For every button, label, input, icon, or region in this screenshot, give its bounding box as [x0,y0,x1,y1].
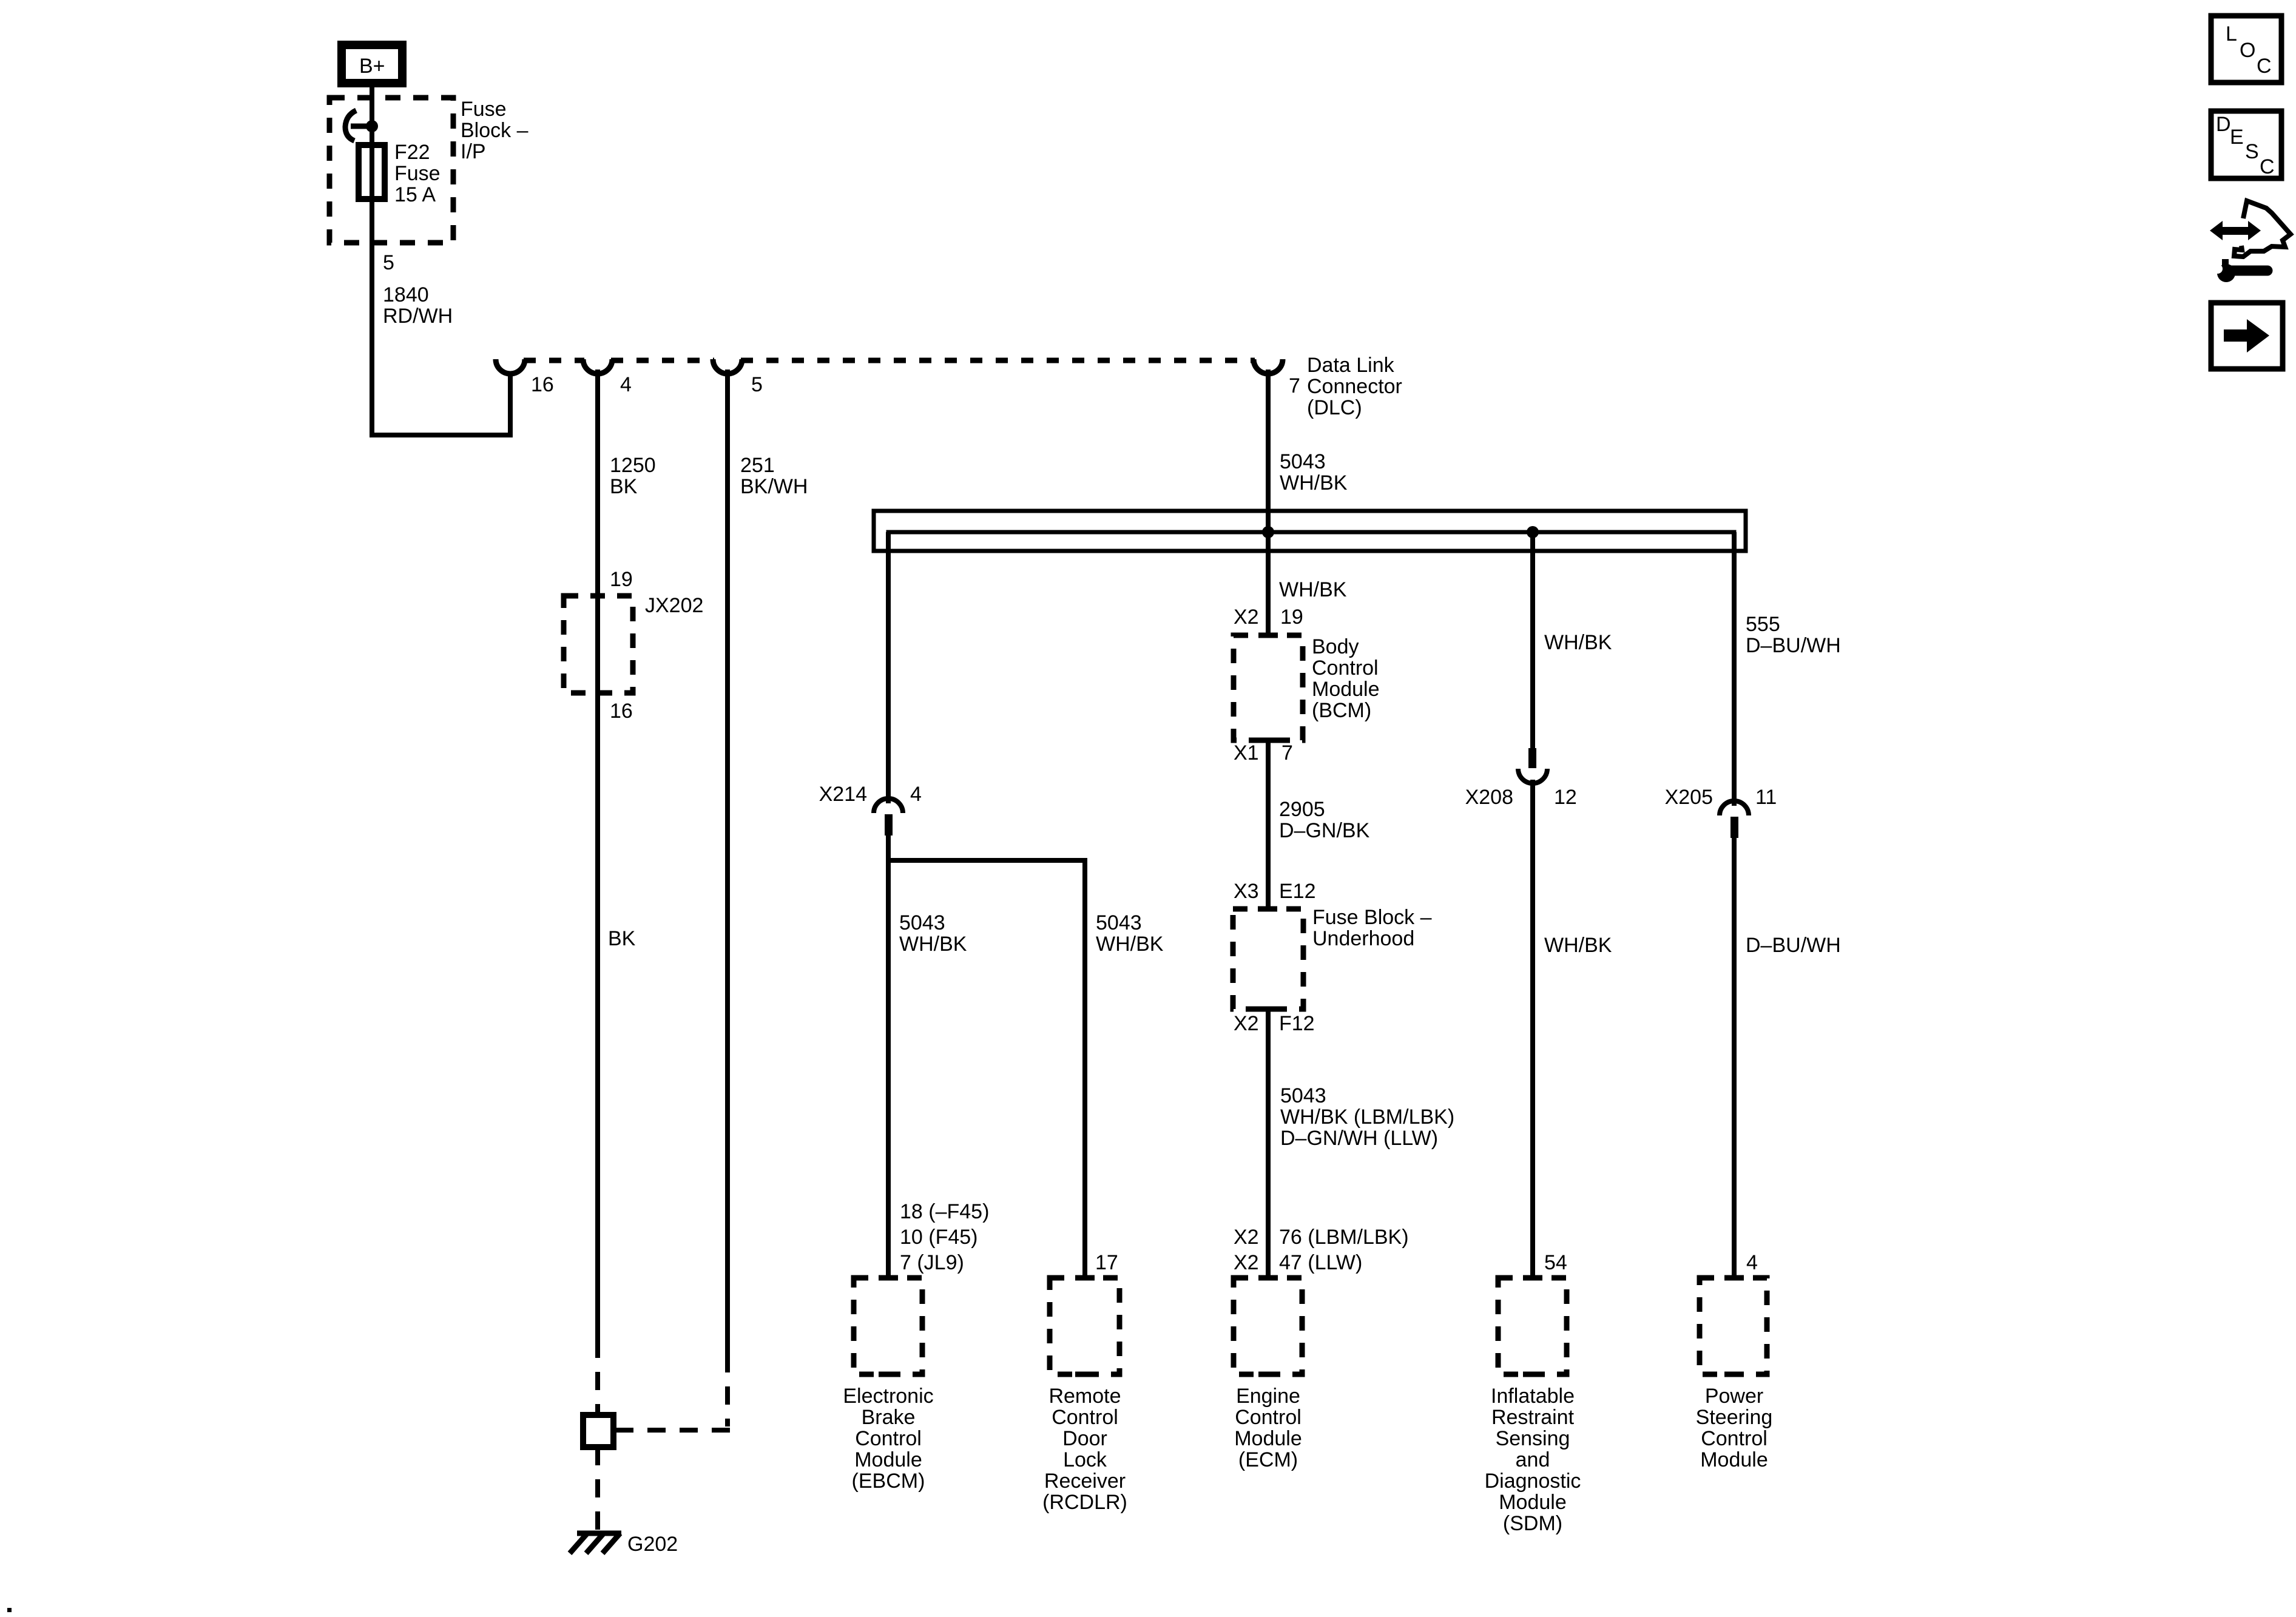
svg-text:Control: Control [855,1427,922,1450]
Data Link Connector (DLC) label [1307,354,1402,419]
svg-text:Diagnostic: Diagnostic [1485,1470,1581,1493]
wire 1250 BK from DLC pin 4 [595,370,600,1340]
Inflatable Restraint Sensing and Diagnostic Module (SDM) label [1485,1385,1581,1535]
svg-text:X1: X1 [1234,741,1259,765]
wire B+ to fuse block [370,87,374,147]
DLC connector cup pin 16 [496,359,525,374]
fuse block underhood dashed box [1233,909,1303,1009]
svg-text:5043: 5043 [899,911,945,934]
svg-text:54: 54 [1544,1251,1567,1274]
Body Control Module (BCM) label [1312,635,1380,722]
dashed wire 251 BK/WH down [725,1354,730,1426]
svg-text:WH/BK: WH/BK [1544,631,1612,654]
svg-text:BK/WH: BK/WH [740,475,808,498]
pin labels at EBCM [900,1200,989,1274]
underhood box bottom center dash [1258,1007,1277,1012]
svg-text:X208: X208 [1465,786,1513,809]
node: bus junction dot at SDM wire [1527,526,1539,538]
svg-text:G202: G202 [627,1533,678,1556]
svg-text:X3: X3 [1234,880,1259,903]
svg-text:Module: Module [854,1448,922,1471]
svg-text:19: 19 [1280,606,1303,629]
svg-text:5: 5 [383,251,394,274]
svg-text:1250: 1250 [610,454,656,477]
svg-text:16: 16 [610,700,633,723]
svg-text:F22: F22 [394,141,430,164]
wire 1840 RD/WH label [383,283,453,328]
svg-text:X2: X2 [1234,1012,1259,1035]
svg-text:5: 5 [751,373,763,396]
svg-text:2905: 2905 [1279,798,1325,821]
svg-text:Inflatable: Inflatable [1491,1385,1575,1408]
pin row X2 19 at BCM [1234,606,1303,629]
svg-text:(SDM): (SDM) [1503,1512,1562,1535]
svg-text:(DLC): (DLC) [1307,396,1362,419]
pin row X1 7 below BCM [1234,741,1293,765]
fuse F22 15 A [359,145,385,199]
svg-text:Module: Module [1234,1427,1302,1450]
diagnostic tool icon: wrench [2207,259,2267,282]
svg-text:WH/BK: WH/BK [1096,933,1164,956]
svg-text:7: 7 [1289,374,1300,397]
svg-text:C: C [2260,155,2275,178]
wire branch to RCDLR [888,860,1085,1280]
svg-text:D–BU/WH: D–BU/WH [1746,634,1841,657]
wire 5043 underhood to ECM [1266,1009,1271,1280]
svg-text:X2: X2 [1234,1251,1259,1274]
svg-text:Restraint: Restraint [1491,1406,1575,1429]
BCM box bottom center dash [1258,738,1278,743]
svg-text:WH/BK: WH/BK [899,933,967,956]
wire 5043 WH/BK label (RCDLR) [1096,911,1164,956]
svg-text:10 (F45): 10 (F45) [900,1226,978,1249]
wire 5043 WH/BK label (DLC drop) [1280,450,1348,495]
svg-text:76 (LBM/LBK): 76 (LBM/LBK) [1279,1226,1409,1249]
svg-text:(RCDLR): (RCDLR) [1042,1491,1127,1514]
wire WH/BK bus to EBCM branch [886,532,891,803]
pin row X2 F12 below underhood fuse block [1234,1012,1315,1035]
dashed wire BK to splice square [595,1340,600,1415]
svg-text:15 A: 15 A [394,183,436,206]
dashed wire splice to ground [595,1447,600,1530]
svg-text:555: 555 [1746,613,1780,636]
ECM module dashed box [1234,1278,1302,1374]
ground G202 symbol [570,1533,621,1553]
pin row X3 E12 at underhood fuse block [1234,880,1316,903]
svg-text:(ECM): (ECM) [1238,1448,1298,1471]
svg-text:Steering: Steering [1696,1406,1773,1429]
underhood box top center dash [1258,906,1277,912]
svg-text:Fuse: Fuse [461,98,507,121]
svg-text:WH/BK: WH/BK [1279,578,1347,601]
svg-text:Module: Module [1312,678,1380,701]
svg-text:19: 19 [610,568,633,591]
wire WH/BK bus to SDM [1530,532,1535,750]
wire 251 BK/WH label [740,454,808,498]
dashed wire 251 BK/WH horizontal to splice [623,1428,730,1433]
svg-text:Fuse: Fuse [394,162,441,185]
fuse block I/P dashed box [329,98,453,243]
svg-text:4: 4 [620,373,632,396]
DESC icon box [2211,111,2281,178]
body control module BCM dashed box [1234,635,1303,740]
wire 5043 WH/BK from DLC pin 7 to bus [1266,370,1271,532]
svg-text:Receiver: Receiver [1044,1470,1126,1493]
wire up to DLC pin 16 [508,371,513,435]
wire fuse down to corner [370,199,374,437]
svg-text:D–GN/WH (LLW): D–GN/WH (LLW) [1280,1127,1438,1150]
svg-text:JX202: JX202 [645,594,703,617]
page artifact dot [7,1608,12,1612]
svg-text:O: O [2240,39,2255,62]
svg-text:7 (JL9): 7 (JL9) [900,1251,964,1274]
fuse F22 label [394,141,441,206]
in-line connector X208 pin 12 [1518,748,1547,783]
DLC connector cup pin 7 [1254,359,1283,374]
svg-text:Control: Control [1701,1427,1768,1450]
Engine Control Module (ECM) label [1234,1385,1302,1471]
svg-text:Sensing: Sensing [1496,1427,1570,1450]
PS control module dashed box [1700,1278,1767,1374]
svg-text:7: 7 [1281,741,1293,765]
svg-text:Connector: Connector [1307,375,1402,398]
junction block JX202 dashed box [564,596,633,693]
svg-text:Underhood: Underhood [1312,927,1414,950]
next-page arrow icon box [2211,303,2283,369]
wire WH/BK bus to BCM [1266,532,1271,638]
svg-text:Control: Control [1235,1406,1302,1429]
svg-text:BK: BK [610,475,638,498]
node: fuse block terminal junction dot [366,120,378,132]
svg-text:Electronic: Electronic [843,1385,933,1408]
wire 1250 BK label [610,454,656,498]
svg-text:251: 251 [740,454,775,477]
wire 5043 WH/BK label (EBCM) [899,911,967,956]
svg-text:Control: Control [1052,1406,1118,1429]
svg-text:Fuse Block –: Fuse Block – [1312,906,1432,929]
svg-text:1840: 1840 [383,283,429,306]
svg-text:Data Link: Data Link [1307,354,1395,377]
svg-text:C: C [2257,55,2272,78]
wire 555 D-BU/WH bus to X205 [1732,532,1737,806]
svg-text:D–BU/WH: D–BU/WH [1746,934,1841,957]
svg-text:(BCM): (BCM) [1312,699,1371,722]
svg-text:Module: Module [1499,1491,1567,1514]
svg-text:47 (LLW): 47 (LLW) [1279,1251,1362,1274]
node: bus junction dot at ECM wire [1262,526,1274,538]
wire X214 down to EBCM [886,836,891,1280]
svg-text:X2: X2 [1234,606,1259,629]
diagnostic tool icon: double arrow [2210,221,2261,240]
LOC icon box [2211,16,2281,83]
Remote Control Door Lock Receiver (RCDLR) label [1042,1385,1127,1514]
wire 2905 D-GN/BK BCM to underhood fuse block [1266,740,1271,911]
svg-text:D: D [2216,113,2231,136]
svg-text:L: L [2226,22,2237,46]
svg-text:RD/WH: RD/WH [383,305,453,328]
wire X205 down to PS module [1732,838,1737,1280]
svg-text:5043: 5043 [1280,450,1326,473]
svg-text:B+: B+ [359,55,385,78]
svg-text:F12: F12 [1279,1012,1315,1035]
svg-text:Power: Power [1705,1385,1763,1408]
svg-text:Door: Door [1062,1427,1107,1450]
svg-text:X2: X2 [1234,1226,1259,1249]
svg-text:D–GN/BK: D–GN/BK [1279,819,1370,842]
splice square junction [583,1415,624,1447]
svg-text:Engine: Engine [1236,1385,1300,1408]
svg-text:S: S [2245,140,2259,163]
svg-text:X205: X205 [1665,786,1713,809]
B+ power feed symbol [342,45,402,83]
fuse block I/P label [461,98,528,163]
svg-text:17: 17 [1095,1251,1118,1274]
svg-text:Block –: Block – [461,119,528,142]
svg-text:11: 11 [1755,786,1777,809]
svg-text:WH/BK: WH/BK [1280,471,1348,495]
serial data bus inner line [888,532,1734,553]
svg-text:WH/BK: WH/BK [1544,934,1612,957]
svg-text:Module: Module [1700,1448,1768,1471]
svg-text:I/P: I/P [461,140,486,163]
svg-text:12: 12 [1554,786,1577,809]
DLC internal dashed line [524,358,1255,363]
svg-text:and: and [1516,1448,1550,1471]
svg-text:Control: Control [1312,657,1379,680]
wire 2905 D-GN/BK label [1279,798,1370,842]
in-line connector X214 pin 4 [874,798,903,836]
wire 555 D-BU/WH label [1746,613,1841,657]
pin row X2 76 / X2 47 at ECM [1234,1226,1409,1274]
svg-text:Remote: Remote [1048,1385,1121,1408]
SDM module dashed box [1498,1278,1567,1374]
svg-text:WH/BK (LBM/LBK): WH/BK (LBM/LBK) [1280,1106,1454,1129]
fuse block terminal hook symbol [345,110,372,141]
Electronic Brake Control Module (EBCM) label [843,1385,933,1493]
RCDLR module dashed box [1050,1278,1119,1374]
svg-text:18 (–F45): 18 (–F45) [900,1200,989,1223]
Fuse Block Underhood label [1312,906,1432,950]
svg-text:Lock: Lock [1063,1448,1107,1471]
svg-text:BK: BK [608,927,636,950]
diagnostic tool icon: connector outline [2234,201,2291,257]
svg-text:(EBCM): (EBCM) [852,1470,925,1493]
DLC connector cup pin 5 [713,359,742,374]
Power Steering Control Module label [1696,1385,1773,1471]
svg-text:4: 4 [1746,1251,1758,1274]
wire 251 BK/WH from DLC pin 5 [725,370,730,1354]
svg-text:5043: 5043 [1096,911,1142,934]
serial data bus outer rectangle [874,511,1746,551]
svg-text:E12: E12 [1279,880,1316,903]
in-line connector X205 pin 11 [1720,801,1749,838]
svg-text:4: 4 [910,783,922,806]
wire 5043 WH/BK (LBM/LBK) D-GN/WH (LLW) label [1280,1084,1454,1150]
svg-text:X214: X214 [819,783,867,806]
svg-text:5043: 5043 [1280,1084,1326,1107]
svg-text:E: E [2230,126,2244,149]
wire X208 down to SDM [1530,780,1535,1280]
svg-text:16: 16 [531,373,554,396]
EBCM module dashed box [854,1278,922,1374]
DLC connector cup pin 4 [583,359,612,374]
BCM box top center dash [1258,633,1278,638]
wire horizontal to DLC pin 16 [370,433,513,437]
svg-text:Body: Body [1312,635,1359,658]
svg-text:Brake: Brake [862,1406,916,1429]
